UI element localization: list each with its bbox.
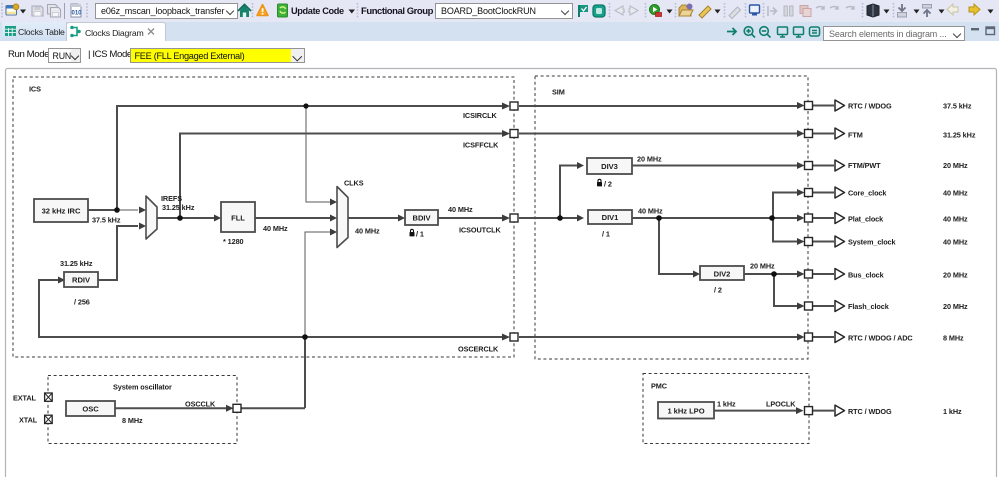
svg-text:EXTAL: EXTAL xyxy=(13,394,37,403)
svg-text:20 MHz: 20 MHz xyxy=(943,271,968,280)
svg-text:RDIV: RDIV xyxy=(72,276,91,285)
svg-text:DIV3: DIV3 xyxy=(601,162,618,171)
svg-text:20 MHz: 20 MHz xyxy=(943,161,968,170)
svg-text:40 MHz: 40 MHz xyxy=(263,224,288,233)
svg-text:OSCERCLK: OSCERCLK xyxy=(458,345,499,354)
svg-text:40 MHz: 40 MHz xyxy=(943,215,968,224)
svg-text:32 kHz IRC: 32 kHz IRC xyxy=(42,207,81,216)
svg-text:/ 1: / 1 xyxy=(602,230,610,239)
svg-text:/ 1: / 1 xyxy=(416,230,424,239)
svg-text:ICSFFCLK: ICSFFCLK xyxy=(463,141,499,150)
svg-text:37.5 kHz: 37.5 kHz xyxy=(943,102,972,111)
svg-text:40 MHz: 40 MHz xyxy=(943,189,968,198)
svg-text:31.25 kHz: 31.25 kHz xyxy=(162,203,195,212)
svg-text:ICSIRCLK: ICSIRCLK xyxy=(463,111,497,120)
svg-text:ICS: ICS xyxy=(29,85,41,94)
svg-text:System_clock: System_clock xyxy=(848,238,897,247)
svg-text:BDIV: BDIV xyxy=(413,214,432,223)
svg-text:/ 256: / 256 xyxy=(74,298,90,307)
svg-text:RTC / WDOG / ADC: RTC / WDOG / ADC xyxy=(848,334,913,343)
svg-text:DIV1: DIV1 xyxy=(602,213,620,222)
svg-text:FTM/PWT: FTM/PWT xyxy=(848,161,881,170)
svg-text:OSC: OSC xyxy=(82,405,99,414)
svg-text:FTM: FTM xyxy=(848,131,863,140)
svg-text:37.5 kHz: 37.5 kHz xyxy=(92,216,121,225)
svg-text:/ 2: / 2 xyxy=(714,286,722,295)
svg-text:/ 2: / 2 xyxy=(604,180,612,189)
svg-text:31.25 kHz: 31.25 kHz xyxy=(60,259,93,268)
svg-text:Flash_clock: Flash_clock xyxy=(848,302,890,311)
svg-text:40 MHz: 40 MHz xyxy=(448,205,473,214)
svg-text:Core_clock: Core_clock xyxy=(848,189,887,198)
svg-text:OSCCLK: OSCCLK xyxy=(185,400,216,409)
svg-text:Plat_clock: Plat_clock xyxy=(848,215,884,224)
svg-text:* 1280: * 1280 xyxy=(223,237,244,246)
svg-text:31.25 kHz: 31.25 kHz xyxy=(943,131,976,140)
svg-text:40 MHz: 40 MHz xyxy=(355,227,380,236)
svg-text:FLL: FLL xyxy=(231,214,245,223)
svg-text:1 kHz: 1 kHz xyxy=(943,407,962,416)
svg-text:CLKS: CLKS xyxy=(344,179,364,188)
svg-text:1 kHz LPO: 1 kHz LPO xyxy=(667,407,704,416)
svg-text:8 MHz: 8 MHz xyxy=(122,416,143,425)
svg-text:XTAL: XTAL xyxy=(19,416,38,425)
svg-text:ICSOUTCLK: ICSOUTCLK xyxy=(459,226,501,235)
svg-text:System oscillator: System oscillator xyxy=(113,383,172,392)
svg-text:40 MHz: 40 MHz xyxy=(943,238,968,247)
svg-text:20 MHz: 20 MHz xyxy=(637,155,662,164)
svg-text:1 kHz: 1 kHz xyxy=(717,400,736,409)
svg-text:40 MHz: 40 MHz xyxy=(638,207,663,216)
svg-text:8 MHz: 8 MHz xyxy=(943,334,964,343)
svg-text:DIV2: DIV2 xyxy=(714,270,731,279)
svg-text:RTC / WDOG: RTC / WDOG xyxy=(848,102,892,111)
svg-text:PMC: PMC xyxy=(651,382,668,391)
svg-text:20 MHz: 20 MHz xyxy=(750,262,775,271)
svg-text:20 MHz: 20 MHz xyxy=(943,302,968,311)
svg-text:RTC / WDOG: RTC / WDOG xyxy=(848,407,892,416)
svg-text:SIM: SIM xyxy=(552,88,565,97)
svg-text:Bus_clock: Bus_clock xyxy=(848,271,885,280)
svg-text:IREFS: IREFS xyxy=(161,194,182,203)
svg-text:LPOCLK: LPOCLK xyxy=(766,400,796,409)
